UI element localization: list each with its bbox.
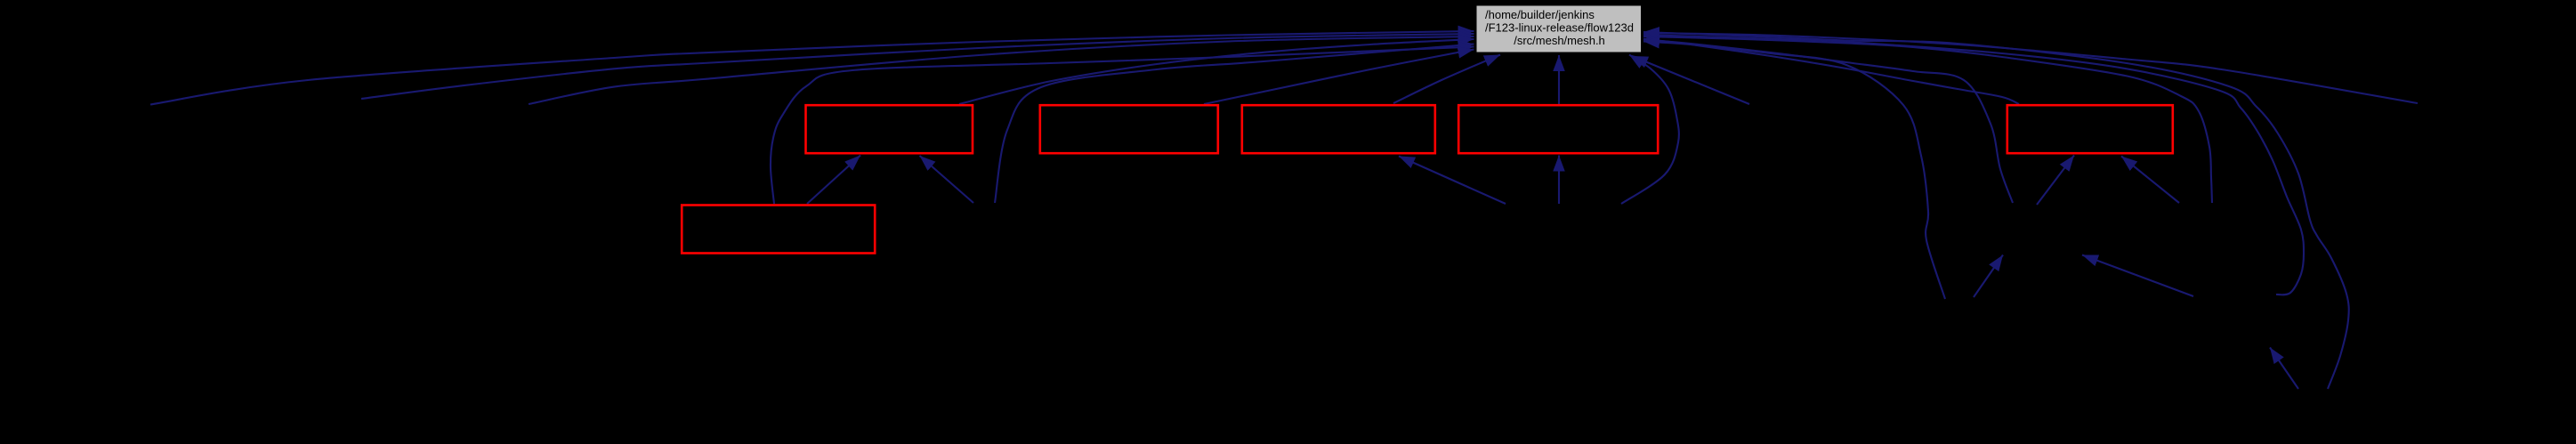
node box2 (red) <box>1040 105 1218 153</box>
edge file-node-C to mesh.h <box>529 36 1474 104</box>
edge node-R3b to mesh.h <box>1643 35 2304 295</box>
edge node-R2d to mesh.h <box>1621 55 1679 205</box>
edge node-R3b to node-R2a <box>2082 255 2193 297</box>
svg-text:/src/mesh/mesh.h: /src/mesh/mesh.h <box>1514 34 1605 47</box>
edge node-R3a to mesh.h <box>1643 42 1945 300</box>
edge node-R2mid to box1 <box>920 156 974 203</box>
edge box6 to mesh.h <box>771 47 1474 205</box>
edge node-R2b to box5 <box>2121 157 2179 204</box>
edge node-R2c to box3 <box>1399 157 1506 205</box>
edge box6 to box1 <box>807 156 860 205</box>
edge box3 to mesh.h <box>1393 55 1500 104</box>
edge node-R2mid to mesh.h <box>995 44 1474 204</box>
edge file-node-B to mesh.h <box>361 34 1474 99</box>
edge node-R4a to mesh.h <box>1643 32 2349 389</box>
edge node-R2a to mesh.h <box>1643 40 2013 204</box>
edge node-R2a to box5 <box>2037 156 2074 206</box>
node box6 (red, lower left) <box>682 206 875 254</box>
svg-text:/F123-linux-release/flow123d: /F123-linux-release/flow123d <box>1485 21 1634 35</box>
node box1 (red) <box>806 105 973 153</box>
node box4 (red) <box>1458 105 1658 153</box>
edge node-R4a to node-R3b <box>2270 348 2298 390</box>
edge box2 to mesh.h <box>1204 50 1474 105</box>
edge box1 to mesh.h <box>959 39 1474 104</box>
edge file-node-A to mesh.h <box>150 31 1474 105</box>
svg-text:/home/builder/jenkins: /home/builder/jenkins <box>1485 8 1595 21</box>
node mesh.h (main, gray) <box>1476 5 1643 53</box>
edge box5 to mesh.h <box>1643 39 2019 105</box>
edge node-R3a to node-R2a <box>1974 255 2003 298</box>
edge node-R2d to box4 <box>1558 156 1560 205</box>
edge node-R2b to mesh.h <box>1643 36 2212 203</box>
edge node-R1r to mesh.h <box>1632 56 1749 104</box>
node box3 (red) <box>1242 105 1435 153</box>
node box5 (red) <box>2007 105 2173 153</box>
edge far-right-node to mesh.h <box>1643 33 2418 103</box>
edge box4 to mesh.h <box>1558 55 1560 104</box>
